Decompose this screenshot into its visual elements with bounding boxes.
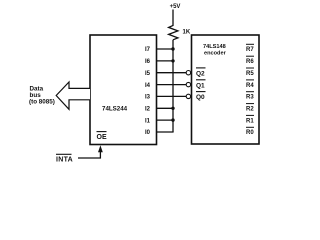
pin label Q0 (active low) bbox=[196, 92, 206, 102]
junction dot I6 bbox=[171, 59, 174, 62]
pin label R1 (active low) bbox=[246, 115, 254, 124]
pin label OE (active low) bbox=[97, 132, 107, 141]
svg-text:I7: I7 bbox=[145, 47, 151, 53]
wire Q2 to I5 bbox=[157, 72, 187, 74]
junction dot I1 bbox=[171, 118, 174, 121]
wire Q1 to I4 bbox=[157, 84, 187, 86]
svg-text:R5: R5 bbox=[246, 71, 254, 77]
svg-text:Q2: Q2 bbox=[196, 70, 205, 77]
wire I1 stub bbox=[157, 119, 174, 121]
svg-text:I0: I0 bbox=[145, 130, 151, 136]
svg-text:I4: I4 bbox=[145, 83, 151, 89]
svg-text:I1: I1 bbox=[145, 118, 151, 124]
pin label R5 (active low) bbox=[246, 68, 254, 77]
pin label R7 (active low) bbox=[246, 44, 254, 53]
wire INTA to OE pin bbox=[78, 150, 100, 158]
svg-text:74LS148: 74LS148 bbox=[203, 44, 226, 50]
pin label R0 (active low) bbox=[246, 127, 254, 136]
pin label Q1 (active low) bbox=[196, 80, 206, 90]
svg-text:R3: R3 bbox=[246, 95, 254, 101]
resistor R 1K with leads bbox=[169, 10, 178, 40]
svg-text:R6: R6 bbox=[246, 59, 254, 65]
IC U1 74LS244 buffer box bbox=[90, 35, 157, 145]
data bus arrow (hollow, pointing left) bbox=[56, 82, 90, 109]
svg-text:OE: OE bbox=[97, 134, 107, 141]
svg-text:+5V: +5V bbox=[170, 4, 181, 10]
wire I6 stub bbox=[157, 60, 174, 62]
svg-text:74LS244: 74LS244 bbox=[102, 106, 128, 113]
inverter bubble Q1 bbox=[186, 82, 190, 86]
svg-text:I2: I2 bbox=[145, 107, 151, 113]
junction dot I2 bbox=[171, 107, 174, 110]
wire: pull-up vertical bus from resistor down to I0 row bbox=[172, 40, 174, 132]
svg-text:1K: 1K bbox=[183, 30, 191, 36]
wire I7 stub bbox=[157, 48, 174, 50]
IC U2 74LS148 encoder box bbox=[192, 35, 260, 144]
wire I0 stub bbox=[157, 131, 174, 133]
pin label R6 (active low) bbox=[246, 56, 254, 65]
inverter bubble Q0 bbox=[186, 94, 190, 98]
svg-text:I5: I5 bbox=[145, 71, 151, 77]
pin label R2 (active low) bbox=[246, 104, 254, 113]
svg-text:R1: R1 bbox=[246, 118, 254, 124]
svg-text:I6: I6 bbox=[145, 59, 151, 65]
svg-text:Q0: Q0 bbox=[196, 94, 205, 101]
junction dot I7 bbox=[171, 47, 174, 50]
svg-text:R7: R7 bbox=[246, 47, 254, 53]
pin label R4 (active low) bbox=[246, 80, 254, 89]
wire Q0 to I3 bbox=[157, 95, 187, 97]
svg-text:R2: R2 bbox=[246, 107, 254, 113]
inverter bubble Q2 bbox=[186, 71, 190, 75]
svg-text:R0: R0 bbox=[246, 130, 254, 136]
wire I2 stub bbox=[157, 107, 174, 109]
svg-text:R4: R4 bbox=[246, 83, 254, 89]
arrowhead into OE bbox=[98, 145, 103, 152]
svg-text:Q1: Q1 bbox=[196, 82, 205, 89]
pin label R3 (active low) bbox=[246, 92, 254, 101]
signal INTA (active low) bbox=[56, 154, 73, 163]
svg-text:I3: I3 bbox=[145, 95, 151, 101]
svg-text:INTA: INTA bbox=[56, 157, 73, 164]
pin label Q2 (active low) bbox=[196, 68, 206, 78]
svg-text:encoder: encoder bbox=[204, 51, 227, 57]
svg-text:(to 8085): (to 8085) bbox=[29, 99, 55, 106]
